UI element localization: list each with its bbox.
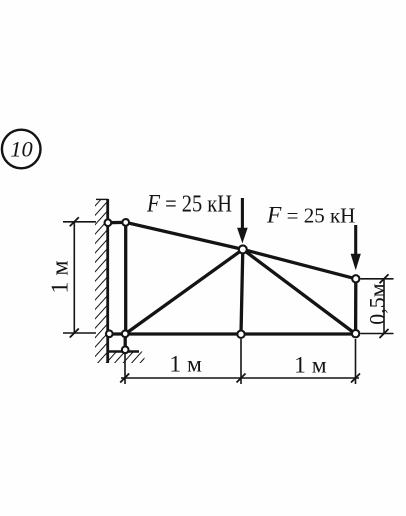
svg-text:1 м: 1 м (294, 353, 327, 379)
svg-text:1 м: 1 м (169, 352, 202, 378)
svg-text:1 м: 1 м (48, 260, 74, 293)
svg-text:F = 25 кН: F = 25 кН (146, 191, 232, 218)
svg-text:0,5м: 0,5м (364, 283, 389, 325)
svg-text:F = 25 кН: F = 25 кН (266, 203, 355, 229)
svg-text:10: 10 (10, 137, 33, 162)
